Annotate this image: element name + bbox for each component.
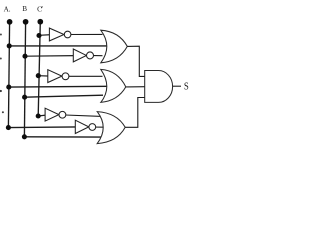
wire G3 output to AND G4 — [125, 98, 145, 128]
wire U5 output to G3 — [89, 126, 105, 128]
rail C — [38, 22, 40, 117]
prime mark on C — [41, 6, 44, 8]
wire G2 output to AND G4 — [126, 86, 146, 88]
inverter U3 — [48, 70, 62, 83]
wire B to inverter U2 — [25, 55, 76, 58]
wire C to inverter U3 — [38, 75, 51, 77]
scan speck 3 — [0, 90, 2, 92]
or-gate G2 — [101, 69, 126, 102]
wire B to OR gate G2 — [25, 95, 103, 97]
svg-text:S: S — [184, 82, 189, 93]
junction node B2 — [22, 95, 27, 100]
rail B — [24, 22, 25, 137]
wire U1 output to G1 — [64, 33, 103, 35]
wire G1 output to AND G4 — [127, 46, 145, 76]
and-gate G4 — [145, 71, 173, 103]
junction node A1 — [7, 43, 12, 48]
scan speck 2 — [0, 58, 2, 60]
wire A to OR gate G2 — [9, 85, 108, 88]
wire B to OR gate G3 — [24, 136, 101, 138]
wire U4 output to G3 — [59, 115, 102, 117]
inverter U2 — [73, 49, 86, 62]
inverter U5 — [75, 120, 89, 133]
wire C to inverter U1 — [39, 34, 52, 37]
bubble U5 — [89, 124, 96, 131]
terminal dot A — [7, 19, 13, 25]
or-gate G3 — [97, 112, 125, 144]
terminal dot C — [37, 19, 43, 25]
junction node A2 — [6, 85, 11, 90]
scan speck 1 — [0, 34, 2, 36]
scan speck 4 — [2, 111, 4, 113]
junction node C2 — [36, 73, 41, 78]
bubble U2 — [87, 52, 94, 59]
wire C to inverter U4 — [38, 115, 48, 116]
inverter U4 — [45, 108, 59, 121]
junction node C1 — [36, 33, 41, 38]
junction node C3 — [36, 113, 41, 118]
junction node B3 — [22, 134, 27, 139]
bubble U1 — [64, 31, 71, 38]
junction node B1 — [22, 54, 27, 59]
bubble U3 — [62, 73, 69, 80]
svg-text:C: C — [37, 6, 42, 14]
terminal dot B — [23, 19, 29, 25]
bubble U4 — [59, 111, 66, 118]
wire U3 output to G2 — [62, 75, 103, 77]
wire U2 output to G1 — [86, 54, 102, 56]
wire A to OR gate G1 — [9, 45, 108, 47]
svg-text:B: B — [22, 5, 27, 13]
rail A — [8, 22, 9, 128]
or-gate G1 — [101, 30, 128, 63]
wire A to inverter U5 — [8, 126, 78, 129]
wire G4 output — [173, 85, 181, 87]
inverter U1 — [49, 28, 64, 41]
svg-text:A.: A. — [4, 6, 11, 14]
junction node A3 — [6, 125, 11, 130]
